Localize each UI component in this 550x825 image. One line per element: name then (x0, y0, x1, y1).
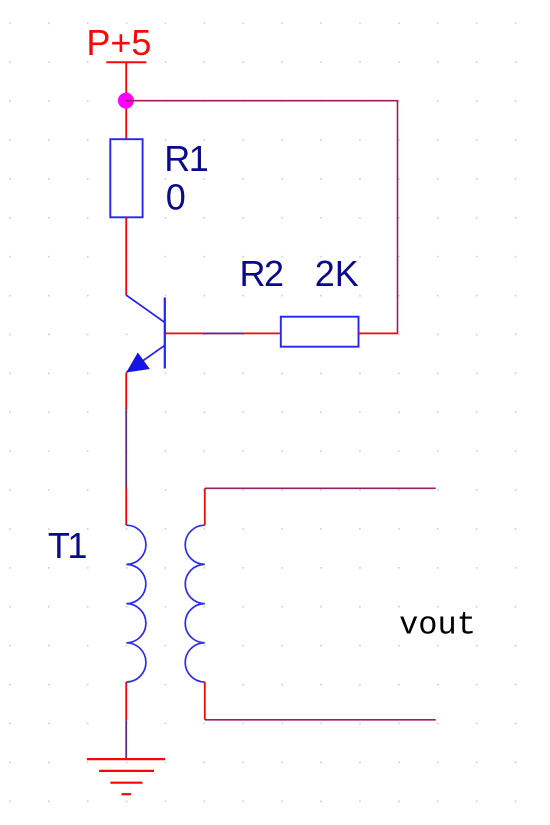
wire P+5 to R1 (125, 62, 127, 139)
wire secondary bottom stub (204, 682, 206, 720)
resistor R2 (281, 317, 359, 347)
svg-text:vout: vout (399, 606, 476, 643)
wire base pin overlap (203, 332, 243, 334)
wire junction to top-right corner (126, 100, 398, 102)
svg-text:P+5: P+5 (86, 22, 151, 63)
transistor Q1 (126, 295, 165, 372)
svg-text:2K: 2K (315, 253, 359, 294)
svg-text:R2: R2 (240, 253, 283, 294)
wire base to R2 (166, 332, 281, 334)
junction dot (118, 93, 134, 109)
wire secondary top stub (204, 488, 206, 525)
svg-text:T1: T1 (48, 525, 86, 566)
ground (87, 759, 165, 794)
wire to primary top (125, 488, 127, 526)
wire emitter down red (125, 373, 127, 410)
wire vout bottom (205, 719, 436, 721)
wire emitter pin overlap purple (125, 409, 127, 488)
wire vout top (205, 487, 436, 489)
transformer T1 primary (126, 525, 146, 682)
wire primary bottom red (125, 682, 127, 720)
resistor R1 (110, 139, 142, 217)
wire R1 to transistor collector (125, 217, 127, 295)
wire R2 to right vertical (359, 332, 399, 334)
svg-text:R1: R1 (164, 138, 207, 179)
wire primary pin overlap purple (125, 720, 127, 758)
wire right vertical (397, 101, 399, 334)
power symbol bar (106, 61, 146, 63)
transformer T1 secondary (185, 525, 205, 682)
svg-text:0: 0 (166, 176, 186, 217)
